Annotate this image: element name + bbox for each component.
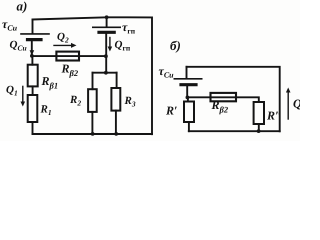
svg-text:QCu: QCu (10, 39, 27, 53)
svg-text:R′: R′ (165, 104, 177, 118)
svg-text:Q1: Q1 (6, 84, 18, 98)
svg-text:а): а) (17, 0, 28, 14)
svg-text:τгп: τгп (122, 20, 136, 36)
svg-text:Q2: Q2 (57, 31, 69, 45)
svg-text:Q: Q (293, 97, 300, 111)
svg-text:R2: R2 (69, 94, 81, 108)
svg-text:τCu: τCu (159, 64, 175, 80)
svg-text:τCu: τCu (2, 17, 18, 33)
svg-text:Rβ1: Rβ1 (41, 74, 59, 91)
svg-text:б): б) (170, 38, 181, 53)
svg-text:R″: R″ (266, 109, 282, 123)
svg-text:R1: R1 (40, 104, 52, 118)
svg-text:R3: R3 (124, 95, 136, 109)
svg-text:Qгп: Qгп (115, 39, 131, 53)
svg-text:Rβ2: Rβ2 (61, 62, 79, 79)
